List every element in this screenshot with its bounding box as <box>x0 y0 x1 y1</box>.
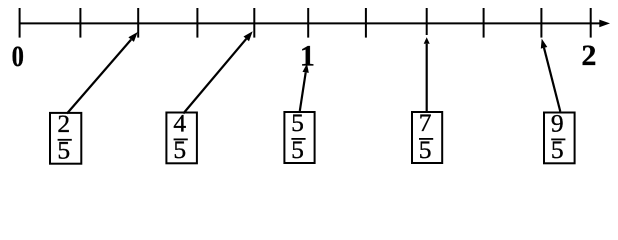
tick 10/5 <box>590 8 592 38</box>
svg-text:0: 0 <box>12 40 24 73</box>
svg-text:7: 7 <box>419 108 432 137</box>
svg-text:5: 5 <box>291 135 304 164</box>
tick 3/5 <box>196 8 198 38</box>
svg-text:5: 5 <box>291 108 304 137</box>
svg-text:2: 2 <box>57 109 70 138</box>
svg-text:5: 5 <box>173 135 186 164</box>
box 7/5 <box>412 108 442 164</box>
tick 7/5 <box>426 8 428 35</box>
tick 8/5 <box>483 8 485 38</box>
box 2/5 <box>50 109 81 165</box>
svg-text:2: 2 <box>581 39 596 72</box>
arrow from box 2/5 to tick 2/5 <box>67 32 138 114</box>
number line <box>20 20 610 28</box>
svg-text:5: 5 <box>419 135 432 164</box>
tick 5/5 <box>307 8 309 38</box>
arrow from box 9/5 to tick 9/5 <box>541 39 561 112</box>
box 9/5 <box>544 109 575 165</box>
arrow from box 5/5 to label 1 <box>300 64 309 112</box>
tick 2/5 <box>137 8 139 38</box>
arrow from box 7/5 to tick 7/5 <box>424 37 430 111</box>
tick 9/5 <box>540 8 542 38</box>
box 5/5 <box>284 108 314 164</box>
svg-text:9: 9 <box>551 109 564 138</box>
tick 6/5 <box>365 8 367 38</box>
arrow from box 4/5 to tick 4/5 <box>183 31 252 113</box>
svg-text:5: 5 <box>57 136 70 165</box>
tick 1/5 <box>79 8 81 38</box>
svg-text:4: 4 <box>173 109 186 138</box>
tick 4/5 <box>253 8 255 38</box>
tick 0 <box>19 8 21 38</box>
box 4/5 <box>166 109 197 165</box>
svg-text:5: 5 <box>551 135 564 164</box>
